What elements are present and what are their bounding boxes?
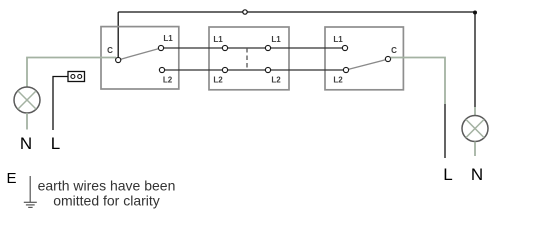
ground symbol [29, 176, 31, 202]
wire top rail [118, 11, 475, 13]
switch box SW3 (right 2-way) [325, 27, 403, 90]
svg-text:C: C [391, 46, 397, 55]
svg-text:L1: L1 [163, 34, 173, 43]
terminal L1a SW2 [222, 45, 227, 50]
wire live feed L to fuse [53, 77, 68, 131]
wire switched live black part [444, 104, 446, 158]
wire L1 strapper row [161, 47, 345, 49]
svg-text:earth wires have been: earth wires have been [38, 178, 176, 194]
switch box SW1 (left 2-way) [101, 27, 179, 89]
terminal C SW3 [385, 56, 390, 61]
terminal C SW1 [116, 57, 121, 62]
svg-text:L1: L1 [333, 35, 343, 44]
svg-text:L2: L2 [333, 76, 343, 85]
wire lamp1 feed horizontal [27, 58, 116, 88]
terminal L1 SW1 [158, 45, 163, 50]
node junction dot top right corner [473, 11, 477, 15]
svg-text:N: N [20, 134, 32, 153]
svg-text:L2: L2 [271, 76, 281, 85]
node open circle on top rail [243, 10, 247, 14]
wire switched live from C SW3 [391, 58, 446, 105]
terminal L1 SW3 [342, 45, 347, 50]
wire right drop black part [474, 12, 476, 107]
wire lamp1 neutral tail [26, 113, 28, 130]
svg-text:N: N [471, 165, 483, 184]
link dashed SW2 [246, 48, 248, 70]
svg-text:omitted for clarity: omitted for clarity [53, 193, 160, 209]
svg-text:L1: L1 [271, 35, 281, 44]
wire L2 strapper row [162, 69, 346, 71]
terminal L2 SW3 [343, 67, 348, 72]
lamp LP2 [462, 116, 488, 142]
terminal L2b SW2 [265, 67, 270, 72]
wire top feed from C of SW1 to top rail [117, 12, 119, 58]
terminal L2 SW1 [159, 67, 164, 72]
terminal L1b SW2 [265, 45, 270, 50]
wire lamp2 top lead [474, 107, 476, 116]
fuse FS1 [68, 72, 85, 82]
svg-text:E: E [6, 170, 16, 187]
terminal L2a SW2 [222, 67, 227, 72]
lamp LP1 [14, 87, 40, 113]
svg-text:L2: L2 [213, 76, 223, 85]
svg-text:L: L [51, 134, 60, 153]
switch box SW2 (intermediate) [209, 27, 289, 90]
switch lever SW3 [349, 60, 386, 69]
wire lamp2 bottom lead [474, 142, 476, 157]
svg-text:L2: L2 [163, 76, 173, 85]
svg-text:C: C [107, 46, 113, 55]
svg-text:L1: L1 [213, 35, 223, 44]
switch lever SW1 [121, 49, 159, 60]
svg-text:L: L [443, 165, 452, 184]
